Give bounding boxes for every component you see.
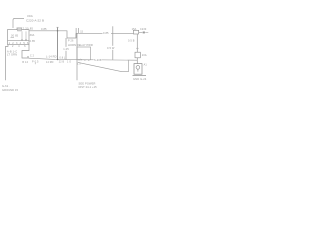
svg-text:30A: 30A (27, 14, 33, 18)
svg-text:1.5: 1.5 (77, 63, 81, 66)
H3 label break (103, 31, 112, 34)
svg-text:0.85: 0.85 (103, 31, 109, 35)
right connector blob (143, 32, 145, 34)
V1 junction dot bottom (57, 59, 59, 61)
V3 label break (107, 46, 115, 50)
svg-text:P 26: P 26 (68, 39, 74, 42)
svg-text:30 85: 30 85 (11, 34, 19, 37)
relay box header cell (17, 28, 21, 31)
svg-text:GROUND 15: GROUND 15 (2, 88, 18, 92)
junction dot B (25, 39, 26, 40)
svg-text:C 2: C 2 (30, 55, 35, 57)
V1 top tick (56, 26, 59, 28)
svg-text:a b: a b (78, 60, 82, 62)
V6 label break (63, 47, 69, 51)
svg-text:A-B 1-C: A-B 1-C (7, 49, 17, 53)
dark vertical wire V1 (57, 27, 59, 59)
fuse F2 on H3 (133, 30, 138, 34)
callout leader line (13, 18, 24, 28)
svg-text:1 G: 1 G (67, 62, 71, 64)
branch wire diagonal (78, 60, 128, 71)
svg-text:1.25: 1.25 (63, 47, 69, 51)
bus label break mid (94, 58, 102, 61)
vertical drop V4 (136, 34, 138, 64)
vertical wire V6 (65, 38, 67, 60)
relay box K1 outline (8, 30, 30, 45)
relay box inner dash (11, 37, 15, 39)
top wire from box to corner (29, 31, 76, 38)
svg-text:0.5 B: 0.5 B (128, 40, 135, 43)
fuse F3 on V4 (135, 52, 140, 58)
svg-text:22 B: 22 B (59, 62, 65, 64)
wire right of F2 (139, 32, 143, 34)
svg-text:L-14 RD: L-14 RD (46, 55, 57, 59)
load box M1 (134, 64, 142, 75)
svg-text:0.5 W: 0.5 W (107, 46, 115, 50)
svg-text:2 4 6: 2 4 6 (12, 45, 28, 48)
wire W2 from pin to bus (22, 45, 29, 58)
V4 junction tick (136, 47, 139, 49)
svg-text:SEE POWER: SEE POWER (79, 81, 96, 85)
junction dot A (21, 39, 22, 40)
bus wire (29, 58, 137, 60)
inline connector C2 ticks (76, 28, 79, 38)
load inner mark (137, 69, 139, 71)
svg-text:HORN RELAY PWR: HORN RELAY PWR (68, 43, 93, 47)
right stub wire (145, 32, 148, 34)
relay box internal wire A (21, 31, 23, 40)
svg-text:0.85: 0.85 (30, 40, 36, 43)
V1 junction dot top (57, 30, 59, 32)
relay box internal wire B (25, 31, 27, 40)
svg-text:C230: C230 (140, 28, 147, 31)
svg-text:P 0.5: P 0.5 (32, 60, 39, 63)
svg-text:S-206: S-206 (94, 59, 102, 62)
svg-text:GND G-24: GND G-24 (133, 77, 147, 81)
svg-text:LT GRN: LT GRN (7, 53, 17, 57)
svg-text:15A: 15A (132, 28, 137, 31)
svg-text:A1: A1 (144, 64, 148, 67)
svg-text:B 12: B 12 (22, 61, 28, 64)
svg-text:30A: 30A (30, 34, 35, 37)
load motor circle (136, 66, 140, 70)
vertical wire V3 (112, 26, 114, 60)
wire W1 left drop (6, 45, 8, 81)
long wire H3 (76, 32, 134, 34)
relay box internal divider (8, 40, 30, 42)
vertical wire V5 (76, 33, 78, 80)
svg-text:DIST 24-1 +15: DIST 24-1 +15 (79, 85, 98, 89)
svg-text:G-61 .: G-61 . (2, 84, 10, 88)
bus tick marks (84, 59, 89, 61)
box B2 (77, 47, 91, 60)
svg-text:C220 A-22 B: C220 A-22 B (26, 19, 44, 23)
svg-text:10A: 10A (142, 54, 147, 57)
svg-text:0.8 L: 0.8 L (60, 57, 66, 59)
svg-text:14 RD: 14 RD (46, 61, 54, 64)
svg-text:0.85: 0.85 (41, 27, 47, 31)
tick below bus (34, 63, 36, 65)
connector ticks on bus start (27, 56, 28, 58)
ground rail (133, 74, 147, 76)
